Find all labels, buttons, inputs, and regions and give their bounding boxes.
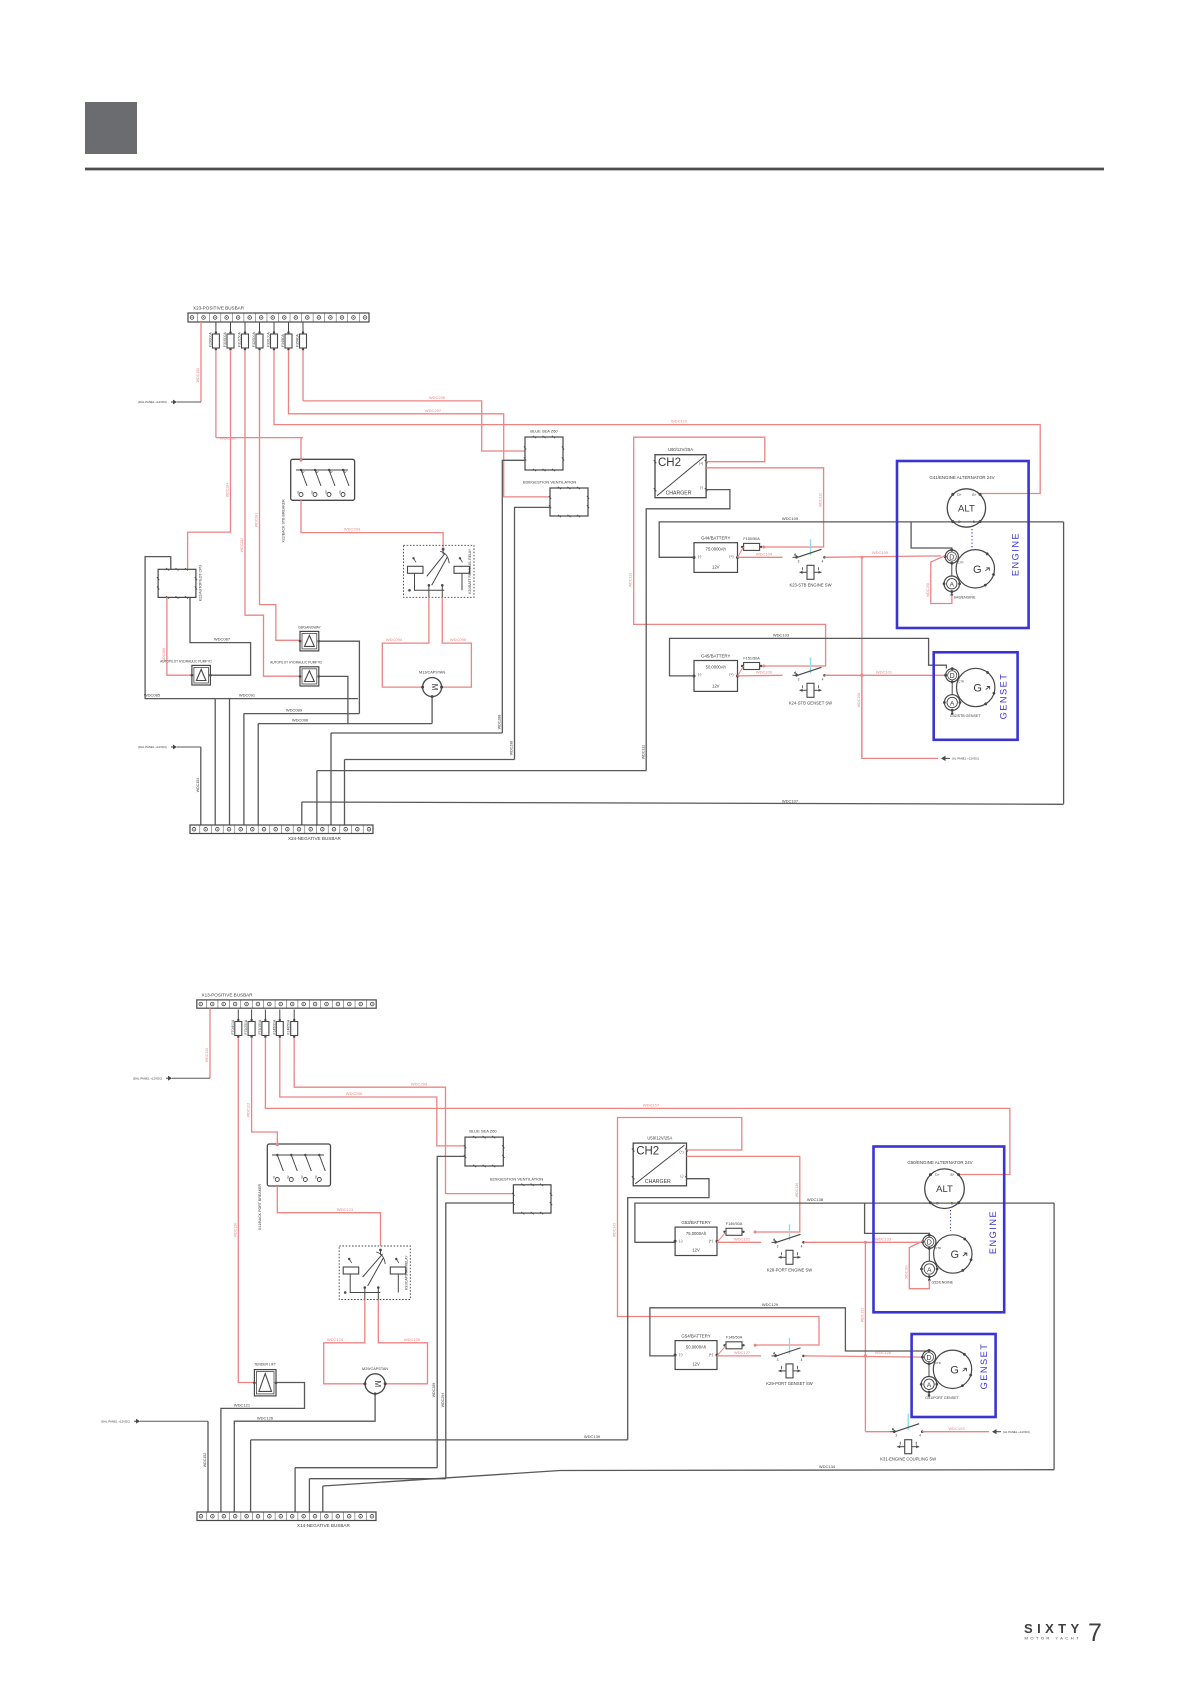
svg-text:M: M — [373, 1380, 382, 1387]
rail R2 bottom — [309, 1478, 445, 1480]
generator cluster G51/PORT GENSET — [933, 1350, 971, 1388]
svg-text:(DAL PANEL +12VDC): (DAL PANEL +12VDC) — [133, 1076, 162, 1080]
wire ventilation ground WDC298 — [515, 507, 551, 759]
switch K28-PORT ENGINE SW — [774, 1241, 777, 1244]
svg-text:WDC290: WDC290 — [346, 1091, 363, 1096]
svg-text:(AL PANEL +12VDC): (AL PANEL +12VDC) — [1003, 1430, 1030, 1434]
svg-text:(+): (+) — [699, 462, 703, 466]
svg-text:WDC131: WDC131 — [734, 1236, 751, 1241]
svg-text:WDC106: WDC106 — [857, 693, 861, 708]
svg-text:AUTOPILOT HYDRAULIC PUMP #2: AUTOPILOT HYDRAULIC PUMP #2 — [270, 661, 322, 665]
svg-text:3: 3 — [798, 677, 800, 681]
svg-text:WDC152: WDC152 — [203, 1453, 207, 1468]
svg-text:M: M — [430, 684, 439, 691]
svg-text:4: 4 — [822, 677, 824, 681]
svg-text:K23-STB ENGINE SW: K23-STB ENGINE SW — [789, 582, 831, 587]
wire WDC089 — [244, 713, 360, 715]
svg-text:G44/BATTERY: G44/BATTERY — [701, 536, 730, 541]
svg-text:F29/300A: F29/300A — [208, 332, 212, 347]
svg-text:3: 3 — [895, 1434, 897, 1438]
svg-text:WDC095: WDC095 — [450, 637, 467, 642]
svg-text:K31-ENGINE COUPLING SW: K31-ENGINE COUPLING SW — [880, 1457, 936, 1462]
wire WDC129 genset battery ground — [650, 1308, 929, 1356]
wire WDC150 from busbar — [200, 322, 202, 402]
svg-text:ALT: ALT — [958, 504, 975, 515]
svg-text:WDC158: WDC158 — [926, 583, 930, 597]
wire WDC125 relay to capstan — [378, 1300, 427, 1384]
svg-text:WDC298: WDC298 — [510, 741, 514, 756]
svg-text:WDC110: WDC110 — [671, 419, 688, 424]
fuse F70/400A — [237, 1010, 239, 1022]
svg-text:WDC122: WDC122 — [247, 1103, 251, 1118]
svg-text:WDC100: WDC100 — [756, 669, 773, 674]
svg-text:WDC089: WDC089 — [286, 708, 303, 713]
svg-text:WDC129: WDC129 — [762, 1302, 779, 1307]
svg-text:12V: 12V — [712, 683, 720, 688]
busbar X24 — [190, 825, 373, 834]
svg-text:B43/ENGINE: B43/ENGINE — [954, 595, 976, 599]
svg-text:D+: D+ — [935, 1173, 939, 1177]
svg-text:WDC107: WDC107 — [782, 798, 799, 803]
svg-text:WDC288: WDC288 — [497, 715, 501, 730]
svg-text:WDC085: WDC085 — [144, 693, 161, 698]
battery G53/BATTERY — [675, 1227, 717, 1255]
wire WDC128 switch to genset — [804, 1356, 922, 1357]
wire panel to busbar bottom — [172, 1077, 210, 1079]
svg-text:WDC282: WDC282 — [240, 538, 244, 553]
svg-text:WDC140: WDC140 — [205, 1048, 209, 1063]
svg-text:CHARGER: CHARGER — [645, 1179, 671, 1185]
svg-text:WDC297: WDC297 — [425, 408, 442, 413]
svg-text:WDC142: WDC142 — [613, 1223, 617, 1238]
svg-text:75.0000Ah: 75.0000Ah — [686, 1231, 707, 1236]
svg-text:WDC128: WDC128 — [875, 1350, 892, 1355]
svg-text:G53/BATTERY: G53/BATTERY — [681, 1220, 710, 1225]
svg-text:D+: D+ — [957, 493, 961, 497]
svg-text:G50/ENGINE ALTERNATOR 24V: G50/ENGINE ALTERNATOR 24V — [907, 1160, 972, 1165]
svg-text:WDC112: WDC112 — [641, 745, 645, 759]
wire charger positive loop bottom — [618, 1118, 820, 1346]
wire WDC297 to ventilation — [302, 350, 304, 401]
svg-text:CTR: CTR — [958, 679, 964, 683]
wire WDC160 engine starter red bottom — [909, 1241, 929, 1289]
svg-text:(+): (+) — [709, 1353, 713, 1357]
busbar X23 — [188, 313, 369, 322]
wire WDC138 battery ground — [635, 1203, 1054, 1242]
wire WDC136 charger to fuse F149 — [687, 1156, 800, 1232]
panel output arrow — [992, 1429, 997, 1434]
svg-text:(-): (-) — [698, 673, 701, 677]
wire pump2 return — [319, 676, 348, 723]
svg-text:F145/50A: F145/50A — [726, 1336, 743, 1340]
blue dotted field wire — [971, 529, 973, 548]
wire WDC282 to pump2 — [245, 350, 300, 676]
wire WDC295 to blue sea — [289, 350, 551, 497]
svg-text:WDC138: WDC138 — [807, 1197, 824, 1202]
svg-text:(+): (+) — [729, 673, 733, 677]
svg-text:(+): (+) — [709, 1239, 713, 1243]
svg-text:G8/GANGWAY: G8/GANGWAY — [298, 625, 322, 629]
relay K30/CAPSTAN RELAY — [339, 1246, 410, 1300]
svg-text:A: A — [950, 582, 955, 589]
wire to engine D pin bottom — [865, 1203, 930, 1235]
relay K30/BATT PARALLEL RELAY — [404, 545, 475, 597]
svg-text:F73/150A: F73/150A — [258, 1019, 262, 1034]
svg-text:WDC101: WDC101 — [876, 669, 893, 674]
svg-text:WDC157: WDC157 — [643, 1103, 660, 1108]
svg-text:GENSET: GENSET — [979, 1343, 989, 1390]
svg-text:SIXTY: SIXTY — [1024, 1621, 1084, 1636]
svg-text:4: 4 — [919, 1434, 921, 1438]
wire WDC101 switch to genset — [825, 674, 946, 676]
wire WDC123 breaker to relay — [277, 1186, 380, 1246]
wire WDC091 — [215, 698, 358, 700]
engine box blue — [897, 461, 1029, 628]
svg-text:CTR: CTR — [958, 561, 964, 565]
alternator G41 — [947, 489, 985, 527]
svg-text:F34/80A: F34/80A — [281, 333, 285, 347]
svg-text:WDC123: WDC123 — [337, 1207, 354, 1212]
wire WDC120 to tender lift — [238, 1038, 254, 1383]
rail to busbar R4 — [317, 770, 646, 772]
wire WDC290 to blue sea — [280, 1038, 465, 1146]
panel output arrow — [941, 756, 946, 761]
svg-text:12V: 12V — [712, 564, 720, 569]
svg-text:F70/400A: F70/400A — [231, 1019, 235, 1034]
svg-text:CTR: CTR — [935, 1246, 941, 1250]
svg-text:4: 4 — [801, 1244, 803, 1248]
rail to busbar R5 — [331, 732, 502, 734]
right rail bottom — [1053, 1203, 1055, 1470]
fuse F29/300A — [215, 322, 217, 334]
svg-text:(+): (+) — [729, 555, 733, 559]
svg-text:B-: B- — [951, 1202, 954, 1206]
wire WDC126 capstan ground — [234, 1394, 375, 1512]
svg-text:WDC134: WDC134 — [819, 1464, 836, 1469]
wire WDC105 switch to engine — [825, 556, 941, 557]
svg-text:(-): (-) — [698, 555, 701, 559]
svg-text:WDC096: WDC096 — [292, 718, 309, 723]
svg-text:WDC281: WDC281 — [255, 513, 259, 528]
wire WDC094 relay to capstan — [382, 597, 429, 687]
svg-text:3: 3 — [777, 1358, 779, 1362]
svg-text:F31/150A: F31/150A — [238, 332, 242, 347]
generator cluster G42/STB GENSET — [957, 668, 995, 706]
svg-text:WDC103: WDC103 — [773, 633, 790, 638]
breaker X22 — [291, 459, 355, 500]
svg-text:WDC125: WDC125 — [404, 1337, 421, 1342]
svg-text:K30/CAPSTAN RELAY: K30/CAPSTAN RELAY — [404, 1255, 408, 1290]
wire charger negative bottom — [628, 1179, 709, 1440]
wire panel to busbar — [177, 401, 201, 403]
svg-text:F149/50A: F149/50A — [726, 1222, 743, 1226]
svg-text:(-): (-) — [680, 1174, 683, 1178]
fuse F31/150A — [244, 322, 246, 334]
svg-text:WDC104: WDC104 — [756, 551, 773, 556]
fuse F33/100A — [273, 322, 275, 334]
right rail wire — [1063, 522, 1065, 804]
svg-text:X13-POSITIVE BUSBAR: X13-POSITIVE BUSBAR — [202, 992, 254, 997]
wire battery to fuse bottom2 — [717, 1345, 726, 1356]
svg-text:WDC284: WDC284 — [225, 483, 229, 498]
svg-text:7: 7 — [1088, 1619, 1102, 1647]
wire WDC109 battery ground — [659, 522, 1063, 557]
svg-text:50.0000Ah: 50.0000Ah — [706, 665, 727, 670]
wire blue sea ground bottom — [437, 1156, 465, 1467]
wire WDC104 — [738, 556, 783, 558]
svg-text:X41/BACK PORT BREAKER: X41/BACK PORT BREAKER — [258, 1184, 262, 1231]
svg-text:TENDER LIFT: TENDER LIFT — [254, 1363, 276, 1367]
svg-text:ALT: ALT — [936, 1184, 953, 1195]
svg-text:12V: 12V — [692, 1362, 700, 1367]
wire ventilation ground bottom — [446, 1203, 514, 1479]
wire to AL panel — [862, 675, 938, 758]
wire WDC293 breaker to relay — [301, 500, 443, 549]
wire charger negative WDC112 — [646, 490, 730, 771]
svg-text:K28-PORT ENGINE SW: K28-PORT ENGINE SW — [767, 1267, 813, 1272]
svg-text:ENGINE: ENGINE — [988, 1210, 998, 1254]
svg-text:A: A — [927, 1382, 932, 1389]
rail R1 bottom — [295, 1467, 437, 1469]
svg-text:K30/BATT PARALLEL RELAY: K30/BATT PARALLEL RELAY — [468, 548, 472, 594]
svg-text:X24-NEGATIVE BUSBAR: X24-NEGATIVE BUSBAR — [288, 836, 341, 841]
svg-text:ENGINE: ENGINE — [1011, 532, 1021, 576]
svg-text:(+): (+) — [680, 1150, 684, 1154]
wire gangway return — [319, 641, 360, 713]
breaker X41 — [267, 1144, 330, 1186]
svg-text:WDC260: WDC260 — [220, 435, 237, 440]
svg-text:G52/ENGINE: G52/ENGINE — [932, 1281, 954, 1285]
svg-text:3: 3 — [777, 1244, 779, 1248]
svg-text:12V: 12V — [692, 1248, 700, 1253]
svg-text:A: A — [950, 700, 955, 707]
busbar X13 — [197, 1000, 376, 1008]
svg-text:WDC150: WDC150 — [196, 368, 200, 383]
wire panel to busbar — [177, 746, 201, 748]
svg-text:G45/BATTERY: G45/BATTERY — [701, 654, 730, 659]
svg-text:G: G — [973, 683, 982, 695]
wire WDC122 to breaker X41 — [252, 1038, 278, 1145]
svg-text:(DAL PANEL +12VDC): (DAL PANEL +12VDC) — [138, 745, 167, 749]
svg-text:(DAL PANEL +12VDC): (DAL PANEL +12VDC) — [138, 400, 167, 404]
svg-text:D: D — [950, 673, 955, 680]
fuse F35/80A — [302, 322, 304, 334]
svg-text:F150/50A: F150/50A — [743, 537, 760, 541]
wire capstan ground — [431, 697, 433, 724]
switch K29-PORT GENSET SW — [774, 1355, 777, 1358]
svg-text:CH2: CH2 — [636, 1146, 659, 1158]
wire WDC260 — [215, 350, 217, 438]
svg-text:CHARGER: CHARGER — [666, 491, 692, 497]
wire WDC087 cpu to pump1 return — [190, 597, 251, 675]
svg-text:M13/CAPSTAN: M13/CAPSTAN — [419, 671, 445, 675]
svg-text:75.0000Ah: 75.0000Ah — [706, 547, 727, 552]
wire WDC124 relay to capstan — [324, 1300, 365, 1384]
generator cluster B43/ENGINE — [956, 550, 994, 588]
rails to negative busbar — [214, 699, 216, 825]
wire WDC103 genset battery ground — [670, 638, 947, 676]
svg-text:BLUE SEA Z60: BLUE SEA Z60 — [469, 1129, 497, 1134]
switch K31-ENGINE COUPLING SW — [893, 1430, 896, 1433]
battery G54/BATTERY — [675, 1341, 717, 1370]
svg-text:AUTOPILOT HYDRAULIC PUMP #1: AUTOPILOT HYDRAULIC PUMP #1 — [160, 659, 212, 663]
svg-text:X23-POSITIVE BUSBAR: X23-POSITIVE BUSBAR — [193, 306, 245, 311]
svg-text:U59/12V/25A: U59/12V/25A — [647, 1136, 672, 1141]
svg-text:F32/300A: F32/300A — [252, 332, 256, 347]
svg-text:U60/12V/25A: U60/12V/25A — [668, 447, 693, 452]
svg-text:B+: B+ — [972, 493, 976, 497]
svg-text:WDC132: WDC132 — [860, 1308, 864, 1323]
svg-text:50.0000Ah: 50.0000Ah — [686, 1345, 707, 1350]
battery G45/BATTERY — [694, 661, 738, 692]
svg-text:3: 3 — [798, 559, 800, 563]
svg-text:(-): (-) — [679, 1239, 682, 1243]
svg-text:G: G — [951, 1249, 960, 1261]
wire WDC110 to alternator — [274, 350, 1040, 494]
svg-text:4: 4 — [822, 559, 824, 563]
svg-text:K24-STB GENSET SW: K24-STB GENSET SW — [789, 700, 832, 705]
generator cluster G52/ENGINE — [934, 1235, 972, 1273]
svg-text:WDC091: WDC091 — [239, 693, 256, 698]
wire blue sea ground WDC288 — [502, 460, 525, 733]
wire WDC140 from busbar — [209, 1008, 211, 1078]
wire WDC131 — [717, 1241, 761, 1243]
fuse F72/250A — [251, 1010, 253, 1022]
wire WDC107 — [302, 802, 1064, 804]
svg-text:K29-PORT GENSET SW: K29-PORT GENSET SW — [766, 1381, 813, 1386]
svg-text:WDC126: WDC126 — [257, 1415, 274, 1420]
wire WDC095 relay to capstan — [442, 597, 472, 687]
svg-text:WDC293: WDC293 — [411, 1081, 428, 1086]
svg-text:G41/ENGINE ALTERNATOR 24V: G41/ENGINE ALTERNATOR 24V — [929, 475, 994, 480]
wire WDC100 — [738, 674, 783, 677]
wire battery to fuse — [738, 547, 744, 557]
wire WDC134 — [323, 1470, 1054, 1486]
svg-text:(DAL PANEL +12VDC): (DAL PANEL +12VDC) — [101, 1419, 130, 1423]
wire WDC284 to CPU — [188, 350, 231, 569]
svg-text:D: D — [926, 1355, 931, 1362]
rail to busbar R6 — [345, 759, 515, 761]
svg-text:F72/250A: F72/250A — [244, 1019, 248, 1034]
header gray square — [85, 102, 137, 154]
svg-text:WDC154: WDC154 — [196, 778, 200, 793]
wire WDC111 charger to fuse F150 — [706, 468, 824, 547]
coupling switch row — [865, 1431, 890, 1433]
svg-text:G42/STB GENSET: G42/STB GENSET — [950, 714, 981, 718]
genset box blue bottom — [912, 1334, 996, 1417]
svg-text:G54/BATTERY: G54/BATTERY — [681, 1334, 710, 1339]
svg-text:(-): (-) — [679, 1353, 682, 1357]
blue dotted field wire bottom — [950, 1210, 952, 1231]
svg-text:WDC094: WDC094 — [386, 637, 403, 642]
svg-text:F33/100A: F33/100A — [267, 332, 271, 347]
fuse F32/300A — [259, 322, 261, 334]
wire WDC139 — [251, 1439, 628, 1441]
svg-text:F146/50A: F146/50A — [287, 1019, 291, 1034]
wire WDC193 — [922, 1431, 989, 1433]
fuse F30/300A — [230, 322, 232, 334]
svg-text:B-: B- — [973, 520, 976, 524]
wire WDC158 engine starter red — [931, 556, 952, 604]
wire battery to fuse bottom1 — [717, 1232, 726, 1242]
fuse F73/150A — [264, 1010, 266, 1022]
svg-text:(-): (-) — [700, 486, 703, 490]
engine box blue bottom — [874, 1147, 1005, 1313]
svg-text:WDC127: WDC127 — [734, 1350, 751, 1355]
svg-text:WDC113: WDC113 — [629, 573, 633, 587]
svg-text:M29/CAPSTAN: M29/CAPSTAN — [362, 1367, 388, 1371]
svg-text:WDC124: WDC124 — [327, 1337, 344, 1342]
battery G44/BATTERY — [694, 543, 738, 573]
wire WDC132 to genset row — [864, 1242, 866, 1431]
svg-text:4: 4 — [801, 1358, 803, 1362]
svg-text:WDC133: WDC133 — [875, 1236, 892, 1241]
svg-text:WDC293: WDC293 — [344, 527, 361, 532]
wire battery to fuse — [738, 666, 744, 676]
svg-text:WDC121: WDC121 — [234, 1403, 251, 1408]
wire to engine D pin — [911, 522, 952, 550]
wire WDC096 — [258, 723, 432, 725]
svg-text:WDC295: WDC295 — [429, 395, 446, 400]
wire WDC157 to alternator — [265, 1038, 1010, 1175]
svg-text:MOTOR YACHT: MOTOR YACHT — [1025, 1636, 1082, 1641]
svg-text:WDC160: WDC160 — [904, 1265, 908, 1279]
svg-text:F151/50A: F151/50A — [743, 656, 760, 660]
svg-text:BLUE SEA Z60: BLUE SEA Z60 — [530, 429, 558, 434]
svg-text:B+: B+ — [951, 1173, 955, 1177]
svg-text:F145/30A: F145/30A — [272, 1019, 276, 1034]
svg-text:X22/BACK STB BREAKER: X22/BACK STB BREAKER — [282, 499, 286, 543]
svg-text:X14-NEGATIVE BUSBAR: X14-NEGATIVE BUSBAR — [297, 1523, 350, 1528]
wire WDC085 cpu ground — [145, 557, 215, 699]
autopilot cpu K22 — [158, 569, 196, 597]
busbar X14 — [197, 1512, 376, 1521]
wire WDC293 to ventilation — [294, 1038, 513, 1194]
wire WDC106 to genset switch row — [861, 557, 863, 758]
svg-text:WDC289: WDC289 — [432, 1383, 436, 1398]
svg-text:A: A — [927, 1267, 932, 1274]
svg-text:WDC139: WDC139 — [584, 1434, 601, 1439]
svg-text:CTR: CTR — [935, 1361, 941, 1365]
svg-text:D: D — [949, 554, 954, 561]
wire WDC127 — [717, 1355, 761, 1357]
svg-text:WDC136: WDC136 — [795, 1183, 799, 1198]
svg-text:WDC111: WDC111 — [819, 493, 823, 507]
wire WDC133 switch to engine — [804, 1241, 923, 1243]
svg-text:G: G — [950, 1364, 959, 1376]
header rule — [85, 168, 1104, 171]
wire WDC086 cpu to pump1 — [167, 597, 192, 675]
wire WDC281 to gangway — [260, 350, 301, 640]
svg-text:B30/GESTION VENTILATION: B30/GESTION VENTILATION — [523, 479, 576, 484]
svg-text:GENSET: GENSET — [999, 673, 1009, 720]
switch K24-STB GENSET SW — [795, 674, 798, 677]
genset box blue — [934, 652, 1018, 740]
wire charger positive loop — [634, 437, 826, 666]
svg-text:G: G — [973, 564, 982, 576]
svg-text:F30/300A: F30/300A — [223, 332, 227, 347]
svg-text:WDC120: WDC120 — [233, 1223, 237, 1238]
switch K23-STB ENGINE SW — [795, 556, 798, 559]
svg-text:CH2: CH2 — [658, 457, 681, 469]
svg-text:WDC193: WDC193 — [948, 1426, 965, 1431]
svg-text:B29/GESTION VENTILATION: B29/GESTION VENTILATION — [490, 1176, 543, 1181]
svg-text:(AL PANEL +12VDC): (AL PANEL +12VDC) — [952, 757, 979, 761]
svg-text:G51/PORT GENSET: G51/PORT GENSET — [925, 1396, 959, 1400]
fuse F34/80A — [288, 322, 290, 334]
svg-text:F35/80A: F35/80A — [296, 333, 300, 347]
svg-text:K22/AUTOPILOT CPU: K22/AUTOPILOT CPU — [199, 564, 203, 601]
